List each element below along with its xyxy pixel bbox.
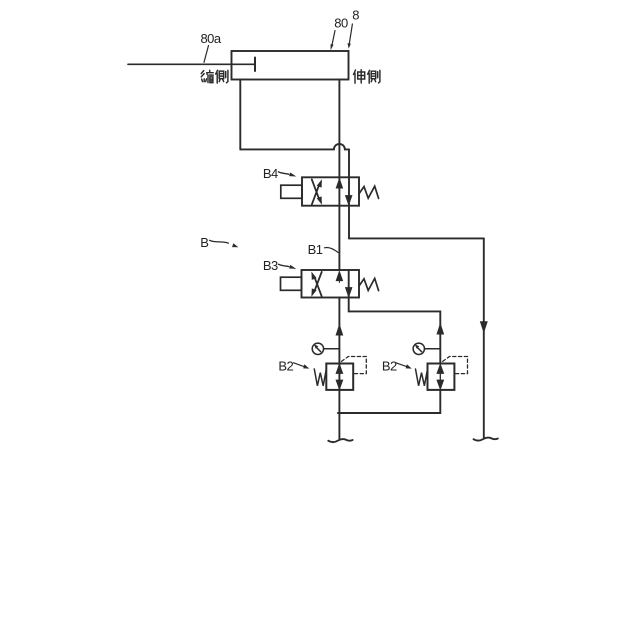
relief valve B2 (right) spring W [416, 369, 428, 386]
valve B4 body [302, 177, 359, 205]
label B2 (right) [382, 358, 397, 373]
relief valve B2 (left) pilot dashed line [342, 357, 367, 374]
svg-text:8: 8 [352, 7, 359, 22]
wire: B3 right port east then down to right relief branch [349, 298, 441, 364]
valve B3 spring [359, 278, 379, 290]
svg-text:B2: B2 [382, 358, 397, 373]
leader arrow for right B2 [396, 363, 412, 369]
left tank symbol [328, 439, 352, 442]
valve B3 body [302, 270, 360, 298]
label B4 [263, 166, 278, 181]
valve B3 up-arrow on left pass line [336, 272, 342, 283]
svg-text:B4: B4 [263, 166, 278, 181]
wire: main line from cylinder right port down through B4 to B3 [338, 80, 340, 271]
up-arrow on right relief branch [437, 324, 443, 334]
wire: right drain line down to tank [483, 238, 485, 437]
valve B3 crossed-flow X [311, 272, 321, 297]
right pressure gauge [413, 343, 440, 354]
label 80 [334, 16, 348, 31]
wire: horizontal with hop over vertical line [240, 144, 349, 150]
svg-text:B2: B2 [278, 358, 293, 373]
relief valve B2 (left) spring W [314, 369, 326, 386]
label B3 [263, 258, 278, 273]
label B1 [308, 242, 323, 257]
valve B4 solenoid [281, 185, 302, 198]
leader arrow for 80 [331, 31, 335, 51]
relief valve B2 (left) arrows [336, 365, 342, 389]
svg-text:80: 80 [334, 16, 348, 31]
label B [200, 235, 208, 250]
leader for 8 [348, 24, 353, 49]
label B2 (left) [278, 358, 293, 373]
piston rod 80a [128, 63, 255, 65]
arrow down on right drain line [481, 322, 488, 332]
wire: right relief outlet down and west to main line [338, 390, 440, 413]
valve B4 down-arrow on right pass line [346, 193, 352, 205]
leader arrow for B4 [279, 172, 297, 177]
leader for B1 [325, 248, 339, 253]
label 80a [201, 31, 222, 46]
valve B3 solenoid [281, 277, 302, 290]
cylinder 80 body [232, 51, 349, 80]
relief valve B2 (left) body [326, 364, 353, 390]
label 8 [352, 7, 359, 22]
relief valve B2 (right) arrows [437, 365, 443, 389]
relief valve B2 (right) body [428, 364, 455, 390]
leader arrow for left B2 [294, 363, 310, 369]
valve B3 right pass line with down-arrow [346, 270, 352, 298]
valve B4 spring [359, 186, 379, 198]
left pressure gauge [312, 343, 339, 354]
svg-text:B: B [200, 235, 208, 250]
leader arrow for B3 [279, 264, 297, 269]
label 伸側 (extend side) [354, 70, 380, 84]
right tank symbol [474, 438, 498, 441]
label 縮側 (contract side) [201, 70, 228, 83]
wire: right line from B4 down, east to right drain [349, 237, 484, 239]
svg-text:80a: 80a [201, 31, 222, 46]
valve B4 crossed-flow X [312, 179, 322, 204]
wire: left port down from cylinder [239, 80, 241, 150]
up-arrow below B3 [336, 325, 342, 335]
svg-text:B3: B3 [263, 258, 278, 273]
leader arrow for B [210, 240, 239, 247]
valve B4 up-arrow on left pass line [336, 179, 342, 190]
relief valve B2 (right) pilot dashed line [443, 357, 468, 374]
svg-text:B1: B1 [308, 242, 323, 257]
wire: main line below B3 down to left relief valve and tank [338, 298, 340, 440]
leader for 80a [204, 46, 209, 63]
piston [254, 58, 256, 72]
wire: right branch corner down to valve B4 [348, 149, 350, 238]
